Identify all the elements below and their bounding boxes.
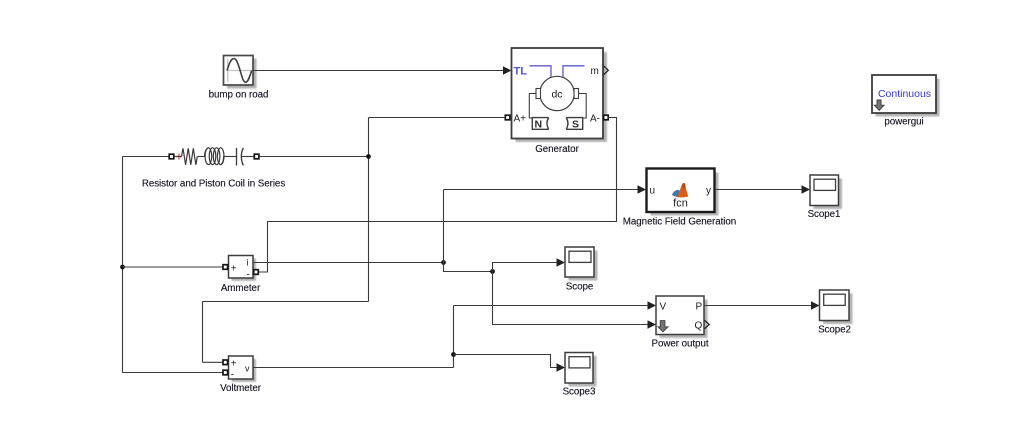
wire: inductor to capacitor (223, 156, 236, 158)
svg-text:Scope2: Scope2 (818, 325, 851, 336)
current measurement block: Ammeter (223, 256, 258, 282)
port square plus input (223, 360, 228, 365)
svg-text:+: + (231, 359, 237, 370)
node B junction dot (490, 269, 495, 274)
wire: lead to resistor (174, 156, 182, 158)
wire: node V vertical up to Power output V input (453, 306, 455, 368)
svg-text:A-: A- (590, 114, 600, 125)
node R junction dot (366, 154, 371, 159)
svg-text:Generator: Generator (535, 144, 579, 155)
wire: node A jog down to node B (444, 263, 493, 272)
gray down arrow icon (874, 100, 884, 110)
dc machine block: Generator U1 (505, 48, 608, 142)
wire: left bus vertical (122, 157, 124, 373)
port square left (169, 154, 174, 159)
wire: down-leg to Voltmeter plus (203, 301, 369, 303)
wire: vertical through node R up to A+ level, down to voltmeter branch (368, 118, 370, 302)
svg-text:Power output: Power output (651, 339, 708, 350)
wire: node B up and right to Scope (493, 258, 566, 271)
svg-text:TL: TL (514, 66, 528, 78)
wire: to Voltmeter minus (123, 372, 224, 374)
svg-text:Q: Q (695, 321, 703, 332)
brushes (536, 89, 541, 99)
capacitor C plates (236, 148, 238, 166)
scope block: Scope (565, 247, 598, 281)
svg-text:-: - (231, 370, 234, 381)
svg-text:Scope3: Scope3 (563, 387, 596, 398)
resistor R zigzag (182, 148, 198, 165)
output chevron m (604, 66, 609, 75)
svg-text:dc: dc (551, 89, 562, 101)
scope block: Scope3 (565, 353, 597, 387)
svg-text:+: + (231, 263, 237, 274)
svg-text:bump on road: bump on road (209, 90, 269, 101)
node A junction dot (441, 260, 446, 265)
svg-text:y: y (706, 186, 711, 197)
port square minus input (223, 370, 228, 375)
svg-text:powergui: powergui (884, 117, 923, 128)
svg-text:m: m (591, 66, 599, 77)
svg-text:fcn: fcn (673, 198, 688, 210)
wire: node B down to Power output I input (493, 272, 657, 329)
scope block: Scope2 (820, 290, 853, 324)
inductor L coil loops (205, 148, 225, 165)
port square A- (604, 115, 609, 120)
svg-text:Magnetic Field Generation: Magnetic Field Generation (623, 217, 736, 228)
svg-text:P: P (696, 302, 703, 313)
wire: RLC right port to node R (junction) (259, 156, 369, 158)
MATLAB function block: Magnetic Field Generation (647, 169, 719, 216)
wire: left lead (123, 156, 170, 158)
wire: sine output to Generator TL input (253, 66, 511, 75)
svg-text:Scope: Scope (566, 282, 594, 293)
svg-text:V: V (660, 302, 667, 313)
svg-text:Continuous: Continuous (878, 88, 931, 100)
svg-text:Resistor and Piston Coil in Se: Resistor and Piston Coil in Series (142, 179, 286, 190)
port square minus output (254, 270, 259, 275)
wire: Power output P to Scope2 (704, 301, 820, 310)
wire: right lead (242, 156, 255, 158)
port square right (254, 154, 259, 159)
wire: Ammeter i output to node A (253, 262, 444, 264)
wire: to Ammeter plus (123, 266, 224, 268)
gray down arrow icon (I input) (658, 321, 668, 332)
powergui block (872, 75, 940, 117)
wire: fcn y output to Scope1 (715, 185, 811, 194)
matlab logo (672, 183, 688, 198)
source block: bump on road (sine wave) (224, 56, 257, 89)
rotor circle dc (540, 76, 574, 110)
svg-text:u: u (650, 186, 656, 197)
wire: to Generator A+ port (369, 117, 506, 119)
armature wires (529, 94, 536, 119)
svg-text:S: S (572, 119, 579, 131)
series RLC branch: Resistor and Piston Coil in Series (123, 148, 259, 166)
voltage measurement block: Voltmeter (223, 356, 256, 382)
wire: node A up to fcn input (443, 190, 445, 263)
power measurement block: Power output (656, 296, 709, 338)
wire: Voltmeter v output to node V (253, 367, 454, 369)
svg-text:A+: A+ (514, 114, 527, 125)
port square A+ (505, 115, 510, 120)
wire: node V to Scope3 (454, 355, 566, 372)
red + polarity mark (176, 154, 182, 160)
svg-text:-: - (247, 270, 250, 281)
port square plus input (223, 265, 228, 270)
svg-text:Ammeter: Ammeter (221, 283, 261, 294)
scope block: Scope1 (810, 175, 842, 209)
node V junction dot (451, 352, 456, 357)
wire: resistor to inductor (197, 156, 205, 158)
blue field lines (530, 66, 552, 77)
svg-text:i: i (247, 258, 249, 268)
magnet N (532, 118, 548, 131)
svg-text:v: v (245, 364, 250, 374)
node L junction dot (120, 265, 125, 270)
svg-text:N: N (535, 119, 543, 131)
magnet S (566, 118, 583, 131)
svg-text:Scope1: Scope1 (808, 209, 841, 220)
wire: Generator A- return to Ammeter minus (259, 118, 617, 273)
output chevron Q (705, 320, 710, 329)
svg-text:Voltmeter: Voltmeter (220, 383, 262, 394)
